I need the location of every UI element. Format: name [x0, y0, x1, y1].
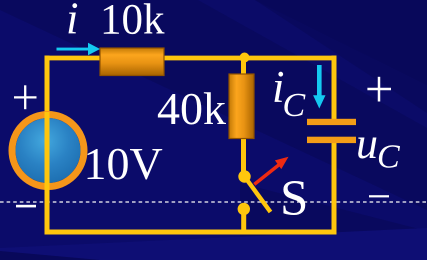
wire: right rail lower segment [332, 142, 337, 235]
svg-text:C: C [377, 139, 400, 176]
svg-text:u: u [356, 119, 378, 168]
wire: left rail [45, 56, 50, 233]
current arrow i [57, 43, 101, 55]
polarity + of capacitor [367, 77, 391, 102]
resistor R1 10k [100, 48, 164, 76]
capacitor C bottom plate [307, 137, 356, 143]
node: top junction [240, 53, 250, 63]
svg-text:S: S [280, 171, 308, 227]
capacitor C top plate [307, 119, 356, 125]
switch S blade [245, 177, 271, 213]
polarity - of capacitor [369, 195, 389, 197]
polarity + of source [14, 85, 37, 109]
switch S top contact node [238, 170, 250, 182]
svg-text:i: i [66, 0, 79, 44]
svg-text:10V: 10V [84, 138, 163, 189]
resistor R2 40k [229, 74, 254, 139]
current arrow iC [313, 65, 325, 109]
wire: segment through source [45, 112, 50, 190]
svg-text:40k: 40k [157, 83, 226, 134]
wire: top rail [45, 56, 337, 61]
switch S bottom contact node [238, 203, 250, 215]
polarity - of source [16, 205, 36, 208]
wire: bottom rail [45, 230, 337, 235]
wire: middle branch resistor-to-switch [241, 138, 246, 176]
svg-text:10k: 10k [100, 0, 165, 44]
wire: switch bottom stub [241, 209, 246, 232]
wire: middle branch top stub [241, 58, 246, 75]
wire: right rail upper segment [332, 56, 337, 121]
voltage source 10V [12, 115, 84, 187]
svg-text:C: C [283, 87, 306, 124]
dashed separator line [0, 201, 427, 203]
switch actuation arrow (red) [254, 157, 288, 185]
